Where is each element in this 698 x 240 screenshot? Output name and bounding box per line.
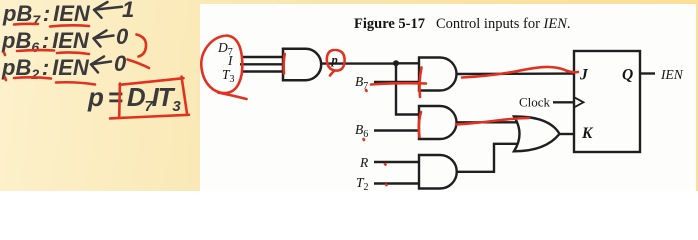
red swoosh after line3	[128, 60, 150, 69]
arrow line2	[94, 30, 114, 46]
flip-flop U1 (JK, IEN)	[574, 51, 640, 152]
red stroke on gate A3 input edge	[419, 112, 421, 137]
wire T3 to gate A1	[242, 70, 283, 72]
red wavy wire to J	[462, 67, 578, 78]
handwritten line 3: pB2 : IEN <- 0	[2, 54, 89, 84]
red underline IEN line3	[56, 82, 95, 84]
svg-text:T3: T3	[222, 67, 235, 85]
svg-text:J: J	[579, 67, 589, 84]
and-gate A1 (D7 I T3 -> p)	[283, 49, 321, 80]
red underline B6 line2	[17, 49, 54, 53]
red dot on R wire	[384, 163, 387, 166]
and-gate A3 (B7-line, B6 -> OR)	[419, 106, 457, 139]
svg-text:R: R	[359, 155, 369, 170]
svg-text:IEN: IEN	[660, 67, 684, 82]
paper (white scanned figure area)	[200, 4, 696, 191]
red dot below B7	[365, 90, 368, 91]
wire D7 to gate A1	[243, 56, 283, 58]
wire B6 to gate A3	[374, 129, 419, 131]
red underline IEN line2	[57, 52, 89, 54]
wire A3 output to OR upper input	[457, 121, 519, 123]
svg-text:I: I	[227, 53, 234, 68]
arrow line3	[91, 56, 111, 72]
handwritten line 2: pB6 : IEN <- 0	[2, 27, 89, 57]
and-gate A4 (R, T2 -> OR)	[419, 155, 457, 189]
handwritten line 1: pB7 : IEN <- 1	[3, 0, 90, 30]
wire I to gate A1	[240, 63, 283, 65]
red circle around p	[327, 50, 345, 76]
svg-text:Figure 5-17: Figure 5-17	[354, 16, 425, 32]
red underline under B7 wire	[371, 83, 426, 84]
handwritten line 4: p = D7IT3	[88, 84, 180, 115]
clock edge triangle	[574, 97, 584, 107]
or-gate O1 (-> K)	[514, 116, 560, 151]
node junction dot	[393, 60, 399, 66]
wire B7 to gate A2	[374, 81, 419, 83]
wire p output to junction	[321, 62, 396, 64]
svg-text:Clock: Clock	[519, 95, 551, 110]
wire junction down to gate A3	[396, 63, 419, 114]
wire OR output to K	[558, 133, 574, 135]
red margin tick line3	[5, 78, 6, 81]
wire A2 output to J	[457, 72, 575, 75]
red swoosh after line2	[137, 35, 147, 57]
svg-text:B6: B6	[355, 122, 368, 140]
wire T2 to gate A4	[374, 182, 419, 184]
svg-text:Control inputs for IEN.: Control inputs for IEN.	[436, 16, 571, 32]
red dot on T2 wire	[385, 183, 388, 186]
caption Figure 5-17	[354, 16, 571, 32]
red underline B2 line3	[14, 77, 51, 78]
red underline B7 line1	[14, 23, 38, 26]
red wire A3 output overlay	[456, 118, 529, 125]
svg-text:p: p	[331, 53, 338, 67]
red pen annotations	[4, 24, 578, 185]
red stroke on gate A1 input edge	[284, 54, 285, 74]
red box around D7IT3	[110, 77, 189, 119]
red margin tick line2	[4, 53, 5, 56]
svg-text:Q: Q	[622, 67, 633, 84]
arrow line1	[94, 2, 122, 18]
red dot below B6	[362, 139, 365, 140]
wire A4 output up to OR lower input	[457, 144, 519, 172]
svg-text:K: K	[581, 125, 594, 142]
red oval around D7 I T3	[201, 36, 246, 100]
red underline IEN line1	[50, 25, 89, 26]
wire junction to gate A2 top input	[396, 62, 419, 64]
wire R to gate A4	[374, 161, 419, 163]
svg-text:T2: T2	[356, 175, 369, 191]
and-gate A2 (p, B7 -> J)	[419, 58, 457, 91]
wire Q output	[640, 72, 655, 74]
handwritten arrows	[91, 2, 122, 72]
red stroke on gate A2 input edge	[420, 68, 422, 98]
wire Clock to flip-flop	[553, 101, 574, 103]
